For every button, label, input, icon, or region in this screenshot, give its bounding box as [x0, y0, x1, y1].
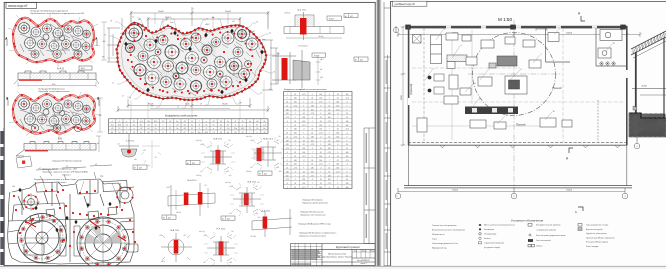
svg-text:25а: 25а — [198, 132, 201, 134]
sheet 2 frame (left+top borders) — [391, 1, 666, 266]
svg-text:106: 106 — [319, 129, 322, 131]
section mark A bottom — [569, 148, 573, 153]
svg-text:4б0: 4б0 — [99, 115, 102, 117]
svg-text:-42: -42 — [183, 128, 186, 130]
svg-text:148: 148 — [294, 129, 297, 131]
svg-text:щ8,5: щ8,5 — [320, 59, 324, 61]
svg-text:-37: -37 — [212, 121, 215, 123]
central view dimension lines — [107, 7, 278, 112]
svg-text:24: 24 — [311, 129, 313, 131]
svg-text:76и25: 76и25 — [222, 104, 228, 106]
svg-text:Установ 1: Установ 1 — [62, 174, 71, 176]
svg-text:2а: 2а — [227, 121, 229, 123]
svg-text:Координаты отверстий по плоско: Координаты отверстий по плоскости разъем… — [284, 88, 327, 91]
svg-text:-17,5: -17,5 — [345, 98, 349, 100]
svg-text:44: 44 — [184, 125, 186, 127]
svg-text:24: 24 — [294, 183, 296, 185]
radiating callouts around view B — [9, 89, 101, 139]
svg-text:-25: -25 — [183, 121, 186, 123]
site boundary double line — [404, 186, 632, 188]
svg-text:Лит: Лит — [354, 250, 357, 252]
bottom-left assembly side view (operation 045) — [8, 165, 138, 264]
svg-text:я8,5: я8,5 — [229, 262, 232, 264]
svg-text:Схемы ввода движения 10 т/вс: Схемы ввода движения 10 т/вс — [432, 243, 458, 245]
svg-text:7: 7 — [303, 164, 304, 166]
svg-text:Операция 050 Сверлая: Операция 050 Сверлая — [302, 200, 323, 202]
svg-text:эскиз кор.сб: эскиз кор.сб — [8, 4, 27, 8]
extension lines from central view to table — [131, 80, 264, 119]
svg-text:Обрабатыв. крепёж (отерстия): Обрабатыв. крепёж (отерстия) — [302, 202, 328, 204]
plan bottom wall with windows — [408, 142, 627, 147]
svg-text:пбм1,5д: пбм1,5д — [246, 136, 252, 138]
svg-text:148: 148 — [328, 175, 331, 177]
svg-text:24: 24 — [320, 179, 322, 181]
svg-text:4б0: 4б0 — [103, 41, 106, 43]
svg-text:-25: -25 — [111, 128, 114, 130]
svg-text:-1: -1 — [206, 128, 208, 130]
svg-text:-3: -3 — [329, 156, 331, 158]
svg-text:-37: -37 — [263, 132, 266, 134]
svg-text:а: а — [177, 132, 178, 134]
svg-text:я24: я24 — [120, 33, 123, 35]
svg-text:Судьба час обозначения: Судьба час обозначения — [586, 233, 607, 235]
svg-text:47: 47 — [256, 125, 258, 127]
caption operation 025 — [52, 160, 81, 163]
svg-text:-3: -3 — [329, 125, 331, 127]
svg-text:42: 42 — [294, 94, 296, 96]
svg-text:106: 106 — [286, 175, 289, 177]
svg-text:7: 7 — [126, 128, 127, 130]
svg-text:24: 24 — [286, 133, 288, 135]
svg-text:24: 24 — [311, 98, 313, 100]
svg-text:-8: -8 — [235, 121, 237, 123]
svg-text:24: 24 — [320, 117, 322, 119]
svg-text:148: 148 — [319, 187, 322, 189]
svg-text:9: 9 — [287, 98, 288, 100]
sheet 2 header stamp box — [392, 1, 427, 6]
svg-text:30,5: 30,5 — [118, 125, 121, 127]
svg-text:15: 15 — [169, 128, 171, 130]
svg-text:я30: я30 — [134, 159, 137, 161]
svg-text:⊕ 417: ⊕ 417 — [314, 54, 319, 57]
svg-text:44: 44 — [220, 121, 222, 123]
svg-text:7: 7 — [329, 129, 330, 131]
svg-text:42: 42 — [346, 117, 348, 119]
svg-text:7: 7 — [320, 171, 321, 173]
sheet 1 frame — [4, 2, 375, 265]
svg-text:47: 47 — [133, 121, 135, 123]
svg-text:11: 11 — [506, 115, 508, 117]
plan top dimension line — [397, 27, 642, 37]
svg-text:-17,5: -17,5 — [310, 175, 314, 177]
projection dimension chains left margin — [97, 22, 107, 132]
svg-text:9: 9 — [303, 136, 304, 138]
svg-text:Ч-Ч С5:1: Ч-Ч С5:1 — [298, 10, 308, 12]
assembly red machined edge marks — [27, 221, 126, 241]
svg-text:щ6: щ6 — [320, 69, 322, 71]
svg-text:-8: -8 — [126, 132, 128, 134]
plan right wall — [626, 26, 628, 145]
view B: housing top face (operation 015) red contour — [13, 94, 95, 134]
svg-text:106: 106 — [346, 156, 349, 158]
svg-text:7: 7 — [303, 102, 304, 104]
building cross-section: roof truss — [631, 30, 666, 58]
svg-text:12: 12 — [613, 43, 615, 45]
svg-text:9: 9 — [433, 69, 434, 71]
svg-text:9: 9 — [312, 94, 313, 96]
svg-text:148: 148 — [311, 168, 314, 170]
svg-text:96и25: 96и25 — [148, 104, 154, 106]
svg-text:Заземление: Заземление — [484, 229, 494, 231]
svg-text:9: 9 — [312, 125, 313, 127]
svg-text:14я/2кд: 14я/2кд — [318, 36, 324, 38]
svg-text:42: 42 — [337, 160, 339, 162]
svg-text:Н-Н С5:1: Н-Н С5:1 — [187, 180, 197, 182]
svg-text:9: 9 — [312, 187, 313, 189]
svg-text:106: 106 — [311, 109, 314, 111]
svg-text:а: а — [249, 125, 250, 127]
svg-text:9: 9 — [287, 129, 288, 131]
svg-text:8а: 8а — [176, 121, 178, 123]
svg-text:47: 47 — [184, 132, 186, 134]
O-O side dimension column — [316, 55, 321, 85]
svg-text:7: 7 — [347, 136, 348, 138]
central view bores — [126, 25, 259, 92]
left edge auxiliary cells — [0, 128, 4, 266]
equipment: crate with X — [413, 35, 422, 44]
svg-text:-17,5: -17,5 — [327, 183, 331, 185]
svg-text:148: 148 — [286, 171, 289, 173]
svg-text:Рэлесштаб Метро подъём: Рэлесштаб Метро подъём — [586, 242, 609, 244]
svg-text:с набором для жерения: с набором для жерения — [536, 230, 556, 232]
svg-text:я8: я8 — [200, 104, 202, 106]
svg-text:42: 42 — [286, 136, 288, 138]
svg-text:42: 42 — [346, 148, 348, 150]
caption assembly coordinates — [34, 179, 76, 184]
svg-text:7: 7 — [337, 117, 338, 119]
svg-text:щ25: щ25 — [320, 77, 323, 79]
assembly big flange circle B1 — [17, 213, 67, 263]
svg-text:Инструментальные тумбочки: Инструментальные тумбочки — [536, 225, 560, 227]
svg-text:24: 24 — [286, 164, 288, 166]
svg-text:7: 7 — [287, 94, 288, 96]
axis circle top-left — [393, 26, 398, 33]
view B section arrows — [7, 98, 100, 107]
svg-text:24: 24 — [286, 102, 288, 104]
svg-text:24: 24 — [337, 94, 339, 96]
side view / section B-B — [16, 142, 96, 156]
svg-text:7: 7 — [312, 152, 313, 154]
svg-text:Операция 010 Вертикально-фрезе: Операция 010 Вертикально-фрезерная — [30, 9, 68, 12]
svg-text:-17,5: -17,5 — [285, 117, 289, 119]
svg-text:9: 9 — [320, 175, 321, 177]
svg-text:15: 15 — [242, 121, 244, 123]
svg-text:9: 9 — [347, 109, 348, 111]
svg-text:24: 24 — [320, 148, 322, 150]
svg-text:-3: -3 — [337, 113, 339, 115]
svg-text:(Проезд): (Проезд) — [409, 84, 413, 95]
svg-text:7: 7 — [337, 148, 338, 150]
svg-text:9: 9 — [337, 183, 338, 185]
svg-text:7: 7 — [295, 144, 296, 146]
svg-text:24: 24 — [328, 136, 330, 138]
svg-text:Проезд: Проезд — [552, 86, 562, 90]
svg-text:106: 106 — [294, 102, 297, 104]
svg-text:106: 106 — [286, 144, 289, 146]
svg-text:-25: -25 — [234, 132, 237, 134]
svg-text:-17,5: -17,5 — [319, 102, 323, 104]
svg-text:148: 148 — [319, 94, 322, 96]
svg-text:106: 106 — [328, 179, 331, 181]
datum box near section A — [79, 66, 92, 70]
svg-text:-1,4: -1,4 — [190, 132, 193, 134]
svg-text:7: 7 — [312, 183, 313, 185]
svg-text:-3: -3 — [346, 164, 348, 166]
svg-text:417: 417 — [350, 16, 353, 18]
svg-text:Обрабатываются стенки Вертикал: Обрабатываются стенки Вертикально-фрезер… — [30, 12, 84, 15]
svg-text:25а: 25а — [147, 121, 150, 123]
svg-text:-17,5: -17,5 — [293, 136, 297, 138]
svg-text:я52: я52 — [232, 21, 235, 23]
svg-text:Е-Е С5:1: Е-Е С5:1 — [248, 182, 258, 184]
svg-text:106: 106 — [319, 160, 322, 162]
assembly leader labels — [42, 179, 117, 196]
svg-text:24: 24 — [303, 171, 305, 173]
svg-text:42: 42 — [320, 183, 322, 185]
svg-text:Главная часть обслуживания: Главная часть обслуживания — [432, 225, 456, 227]
view A bores — [19, 23, 91, 59]
svg-text:7: 7 — [199, 121, 200, 123]
svg-text:в9: в9 — [95, 164, 97, 166]
svg-text:-3: -3 — [312, 148, 314, 150]
svg-text:42: 42 — [337, 129, 339, 131]
svg-text:24: 24 — [294, 152, 296, 154]
equipment: center machines in crane circle — [444, 33, 541, 104]
svg-text:M8: M8 — [277, 54, 279, 56]
view B bores — [19, 99, 91, 132]
svg-text:пбм1,5д: пбм1,5д — [196, 140, 202, 142]
svg-text:Спуск: Спуск — [432, 239, 437, 241]
svg-text:-17,5: -17,5 — [336, 109, 340, 111]
section axis circle — [634, 137, 640, 149]
svg-text:-17,5: -17,5 — [285, 148, 289, 150]
svg-text:Элипсы: Элипсы — [536, 245, 543, 247]
detail O-O — [268, 46, 326, 92]
svg-text:148: 148 — [294, 98, 297, 100]
svg-text:148: 148 — [286, 140, 289, 142]
svg-text:Операция 060 Алмазная ФМ7,5 сб: Операция 060 Алмазная ФМ7,5 сбор. — [298, 223, 332, 226]
svg-text:7: 7 — [347, 105, 348, 107]
svg-text:9а: 9а — [140, 132, 142, 134]
svg-text:8а: 8а — [227, 132, 229, 134]
svg-text:148: 148 — [294, 160, 297, 162]
svg-text:я45: я45 — [138, 19, 141, 21]
svg-text:7в5: 7в5 — [257, 182, 260, 184]
svg-text:Места напольных воспомогательн: Места напольных воспомогательных — [484, 225, 515, 227]
svg-text:-17,5: -17,5 — [285, 179, 289, 181]
svg-text:я8,5: я8,5 — [276, 167, 279, 169]
svg-text:Координаты осей расточек: Координаты осей расточек — [165, 113, 198, 117]
inventory column cells left of sheet1 right border — [364, 128, 375, 244]
assembly small circle S2 — [117, 187, 133, 203]
svg-text:42: 42 — [328, 171, 330, 173]
svg-text:15: 15 — [133, 132, 135, 134]
svg-text:148: 148 — [311, 136, 314, 138]
svg-text:42: 42 — [303, 144, 305, 146]
svg-text:2а: 2а — [155, 128, 157, 130]
detail V-V — [159, 230, 192, 263]
bottom axis circles and dims — [395, 188, 628, 199]
svg-text:Кр.п.420092.01: Кр.п.420092.01 — [357, 259, 370, 262]
svg-text:24: 24 — [311, 160, 313, 162]
svg-text:-17,5: -17,5 — [302, 156, 306, 158]
svg-text:106: 106 — [319, 98, 322, 100]
svg-text:106: 106 — [302, 183, 305, 185]
svg-text:106: 106 — [336, 136, 339, 138]
svg-text:24: 24 — [328, 168, 330, 170]
svg-text:148: 148 — [336, 133, 339, 135]
svg-text:9: 9 — [329, 133, 330, 135]
svg-text:-17,5: -17,5 — [293, 168, 297, 170]
svg-text:7: 7 — [320, 109, 321, 111]
svg-text:1: 1 — [397, 196, 398, 198]
svg-text:24: 24 — [303, 109, 305, 111]
equipment: bottom row — [417, 75, 572, 132]
svg-text:42: 42 — [320, 152, 322, 154]
svg-text:24: 24 — [337, 187, 339, 189]
svg-text:19и05: 19и05 — [158, 11, 164, 13]
svg-text:9: 9 — [287, 160, 288, 162]
svg-text:9: 9 — [295, 117, 296, 119]
svg-text:Обрабатыв. стенки горизонтальн: Обрабатыв. стенки горизонтальные — [38, 91, 69, 93]
svg-text:106: 106 — [346, 187, 349, 189]
svg-text:Р-Р С5:1: Р-Р С5:1 — [217, 229, 227, 231]
svg-text:-3: -3 — [346, 102, 348, 104]
svg-text:7: 7 — [541, 54, 542, 56]
svg-text:42: 42 — [286, 105, 288, 107]
svg-text:7: 7 — [329, 98, 330, 100]
svg-text:42: 42 — [294, 156, 296, 158]
svg-text:Операция 055 Чеканочная: Операция 055 Чеканочная — [300, 212, 323, 214]
svg-text:Проезд: Проезд — [516, 123, 526, 127]
svg-text:а: а — [126, 121, 127, 123]
svg-text:148: 148 — [311, 105, 314, 107]
svg-text:14я/2кд: 14я/2кд — [246, 171, 251, 173]
plan left wall — [408, 26, 410, 145]
svg-text:Условные обозначения: Условные обозначения — [511, 219, 544, 223]
svg-text:-14: -14 — [256, 128, 259, 130]
svg-text:9: 9 — [320, 113, 321, 115]
svg-text:-3: -3 — [287, 121, 289, 123]
svg-text:42: 42 — [328, 109, 330, 111]
svg-text:148: 148 — [302, 179, 305, 181]
svg-text:9: 9 — [347, 140, 348, 142]
svg-text:9а: 9а — [249, 121, 251, 123]
section columns and floor — [632, 38, 666, 120]
svg-text:-3: -3 — [287, 152, 289, 154]
svg-text:Свет потолочный: Свет потолочный — [536, 239, 550, 242]
svg-text:42: 42 — [311, 102, 313, 104]
svg-text:7,2: 7,2 — [212, 132, 214, 134]
svg-text:106: 106 — [294, 133, 297, 135]
svg-text:-17,5: -17,5 — [293, 105, 297, 107]
svg-text:7в5: 7в5 — [231, 231, 234, 233]
svg-text:42: 42 — [346, 179, 348, 181]
svg-text:Охлаждающих: Охлаждающих — [484, 234, 496, 236]
svg-text:7в5: 7в5 — [228, 140, 231, 142]
assembly small circle S1 — [22, 193, 40, 211]
svg-text:Маршрутный ход: Маршрутный ход — [432, 247, 447, 250]
svg-text:-3: -3 — [337, 144, 339, 146]
svg-text:106: 106 — [328, 148, 331, 150]
svg-text:8а: 8а — [140, 125, 142, 127]
svg-text:42: 42 — [328, 140, 330, 142]
svg-text:Д-Д С5:1: Д-Д С5:1 — [262, 211, 272, 213]
svg-text:7,2: 7,2 — [125, 125, 127, 127]
svg-text:148: 148 — [336, 164, 339, 166]
svg-text:12: 12 — [122, 96, 124, 98]
svg-text:п12: п12 — [38, 168, 41, 170]
svg-text:9: 9 — [320, 144, 321, 146]
svg-text:M8: M8 — [212, 18, 214, 20]
svg-text:12: 12 — [112, 83, 114, 85]
svg-text:-3: -3 — [287, 183, 289, 185]
svg-text:лист 1: лист 1 — [360, 263, 367, 265]
svg-text:я30H7: я30H7 — [205, 24, 210, 26]
svg-text:42: 42 — [337, 98, 339, 100]
equipment leader lines and numbers — [425, 28, 612, 124]
svg-text:Масса: Масса — [362, 250, 367, 252]
svg-text:5: 5 — [489, 69, 490, 71]
svg-text:Служебный помещения: Служебный помещения — [484, 242, 504, 245]
svg-text:М 1:50: М 1:50 — [498, 17, 512, 22]
svg-text:-17,5: -17,5 — [302, 187, 306, 189]
svg-text:+4.800: +4.800 — [641, 86, 647, 88]
svg-text:Продольный жезл: Продольный жезл — [328, 253, 347, 256]
svg-text:148: 148 — [346, 121, 349, 123]
svg-text:148: 148 — [336, 102, 339, 104]
svg-text:я8,5: я8,5 — [255, 213, 258, 215]
svg-text:-3: -3 — [295, 171, 297, 173]
detail Е-Е — [225, 182, 264, 220]
svg-text:106: 106 — [302, 152, 305, 154]
svg-text:25а: 25а — [234, 128, 237, 130]
svg-text:-17,5: -17,5 — [336, 171, 340, 173]
svg-text:9: 9 — [295, 148, 296, 150]
svg-text:25а: 25а — [111, 125, 114, 127]
svg-text:-3: -3 — [295, 109, 297, 111]
svg-text:106: 106 — [294, 164, 297, 166]
section A-A side view — [14, 71, 99, 84]
svg-text:40: 40 — [97, 143, 99, 145]
svg-text:417: 417 — [192, 163, 195, 165]
svg-text:7: 7 — [295, 113, 296, 115]
svg-text:6: 6 — [521, 69, 522, 71]
svg-text:417: 417 — [227, 218, 230, 220]
svg-text:148: 148 — [319, 125, 322, 127]
svg-text:M8: M8 — [165, 20, 167, 22]
mini grid table near E-E — [287, 168, 300, 180]
svg-text:Операция 065 Контроль на герме: Операция 065 Контроль на герметичность — [299, 233, 336, 235]
legend column 3 — [528, 224, 566, 248]
svg-text:7: 7 — [295, 175, 296, 177]
caption operation 045 — [42, 169, 88, 177]
section foundation hatched ground — [629, 113, 666, 137]
svg-text:9: 9 — [303, 105, 304, 107]
svg-text:12: 12 — [177, 107, 179, 109]
svg-text:31: 31 — [263, 121, 265, 123]
central view inner offset contour — [121, 25, 261, 98]
